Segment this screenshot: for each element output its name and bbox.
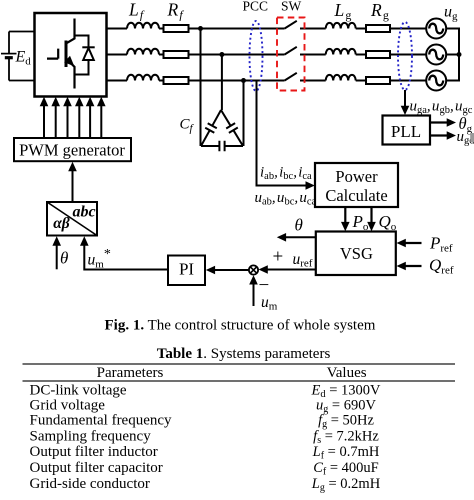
svg-text:Parameters: Parameters: [97, 365, 164, 381]
grid measuring ellipse: [398, 22, 412, 90]
inductor Lf phase-b: [127, 49, 159, 55]
capacitor Cf delta bottom side: [201, 145, 243, 147]
SW dashed box: [277, 18, 305, 91]
svg-text:Cf: Cf: [180, 117, 195, 135]
table rule under header: [23, 380, 456, 382]
wire abc to PWM: [72, 166, 74, 202]
resistor Rg phase-c: [366, 77, 390, 84]
svg-text:θ: θ: [295, 216, 303, 235]
source ug phase-a: [426, 19, 446, 39]
battery Ed plate long: [1, 53, 17, 55]
wire phase-b inverter to Lf: [107, 54, 127, 56]
wire phase-b Rg to source: [390, 54, 426, 56]
summer junction: [249, 265, 258, 274]
transistor IGBT body bar: [65, 41, 68, 68]
svg-text:PLL: PLL: [391, 122, 421, 141]
wire VSG out theta: [284, 236, 316, 238]
inductor Lg phase-a: [326, 23, 356, 29]
transistor IGBT emitter lead: [66, 59, 75, 89]
svg-text:uab, ubc, uca: uab, ubc, uca: [255, 190, 317, 208]
svg-text:Values: Values: [327, 365, 367, 381]
svg-text:Calculate: Calculate: [325, 186, 387, 205]
wire DC-link left upper: [8, 32, 10, 54]
inductor Lf phase-a: [127, 23, 159, 29]
wire theta into abc block: [56, 240, 58, 269]
svg-text:iab, ibc, ica: iab, ibc, ica: [260, 164, 312, 182]
svg-text:Fig. 1. The control structure: Fig. 1. The control structure of whole s…: [105, 318, 376, 334]
wire Po: [344, 207, 346, 228]
svg-text:PI: PI: [179, 260, 194, 279]
svg-text:Rf: Rf: [167, 0, 185, 22]
wire PCC tap to PLL: [404, 90, 406, 111]
artifact grey block: [470, 133, 474, 142]
wire um into summer: [253, 284, 255, 306]
inductor Lg phase-b: [326, 49, 356, 55]
capacitor Cf delta right side: [221, 110, 243, 146]
svg-text:ug: ug: [444, 4, 458, 23]
wire phase-b Lg to Rg: [356, 54, 366, 56]
inductor Lg phase-c: [326, 75, 356, 81]
PI box: [168, 256, 205, 286]
wire Qo: [370, 207, 372, 228]
diode triangle: [83, 48, 94, 60]
transistor IGBT gate: [47, 49, 58, 59]
svg-text:SW: SW: [281, 0, 302, 14]
diode cathode bar: [82, 46, 94, 48]
svg-text:Grid-side conductor: Grid-side conductor: [30, 476, 150, 492]
capacitor Cf delta left side: [201, 110, 221, 146]
resistor Rf phase-c: [164, 77, 189, 84]
Power Calculate box: [315, 163, 398, 207]
PWM generator box: [14, 138, 131, 161]
svg-text:Lg = 0.2mH: Lg = 0.2mH: [311, 476, 381, 494]
svg-text:um: um: [261, 294, 278, 313]
transform block abc/alphabeta: [47, 202, 97, 236]
resistor Rg phase-b: [366, 51, 390, 58]
svg-text:Power: Power: [335, 167, 378, 186]
transistor IGBT emitter arrowhead: [64, 56, 74, 66]
VSG box: [316, 232, 396, 276]
svg-text:Qo: Qo: [379, 212, 397, 233]
wire phase-a Lg to Rg: [356, 28, 366, 30]
wire phase-c Lf to Rf: [159, 80, 164, 82]
wire um* into abc block: [84, 240, 168, 270]
wire DC-link left lower: [8, 58, 10, 81]
wire phase-a Rf to switch: [189, 28, 285, 30]
svg-text:θ: θ: [60, 249, 68, 268]
wire PLL out ugd: [430, 134, 448, 136]
svg-text:Ed: Ed: [15, 49, 32, 68]
svg-text:um*: um*: [88, 247, 111, 271]
svg-text:Pref: Pref: [429, 234, 453, 255]
inductor Lf phase-c: [127, 75, 159, 81]
svg-text:Rg: Rg: [370, 0, 389, 22]
wire phase-a inverter to Lf: [107, 28, 127, 30]
svg-text:αβ: αβ: [53, 215, 70, 232]
battery Ed plate short: [5, 56, 13, 59]
svg-text:Table 1. Systems parameters: Table 1. Systems parameters: [157, 346, 331, 362]
PWM gate arrows x6: [44, 104, 101, 138]
table rule top: [23, 363, 456, 365]
wire drop phase-a to Cf: [200, 29, 202, 147]
resistor Rf phase-a: [164, 25, 189, 32]
node neutral junction: [457, 52, 462, 57]
wire phase-c Lg to Rg: [356, 80, 366, 82]
wire uref VSG to summer: [266, 269, 316, 271]
svg-text:Fundamental frequency: Fundamental frequency: [30, 413, 173, 429]
svg-text:Qref: Qref: [429, 256, 454, 277]
svg-text:+: +: [273, 247, 284, 268]
node phase-b junction: [219, 52, 224, 57]
wire PLL out theta-g: [430, 121, 448, 123]
wire phase-a Lf to Rf: [159, 28, 164, 30]
wire DC-link bottom: [9, 80, 35, 82]
resistor Rf phase-b: [164, 51, 189, 58]
source ug phase-c: [426, 71, 446, 91]
wire summer to PI: [213, 269, 249, 271]
inverter box: [35, 13, 107, 97]
wire phase-c Rf to switch: [189, 80, 285, 82]
PLL box: [383, 116, 431, 145]
svg-text:Output filter capacitor: Output filter capacitor: [30, 460, 163, 476]
node phase-c junction: [241, 78, 246, 83]
PCC measuring ellipse: [250, 21, 263, 91]
wire source neutral bus: [446, 29, 459, 81]
svg-text:uref: uref: [293, 251, 313, 270]
svg-text:Grid voltage: Grid voltage: [30, 397, 106, 413]
diode anti-parallel top branch: [75, 36, 89, 48]
svg-text:PCC: PCC: [243, 0, 269, 14]
wire phase-b Rf to switch: [189, 54, 285, 56]
node phase-a junction: [198, 26, 203, 31]
source ug phase-b: [426, 45, 446, 65]
wire phase-c inverter to Lf: [107, 80, 127, 82]
svg-text:Sampling frequency: Sampling frequency: [30, 428, 152, 444]
wire phase-a Rg to source: [390, 28, 426, 30]
wire drop phase-c to Cf: [243, 81, 245, 147]
wire Qref into VSG: [404, 265, 422, 267]
diode bottom branch: [75, 60, 89, 75]
svg-text:Lg: Lg: [334, 0, 352, 22]
switch SW phase-c: [285, 73, 326, 81]
svg-text:Output filter inductor: Output filter inductor: [30, 444, 158, 460]
svg-text:Po: Po: [352, 212, 369, 233]
svg-text:−: −: [259, 275, 270, 296]
wire PCC tap to Power Calculate: [257, 81, 308, 186]
wire phase-b Lf to Rf: [159, 54, 164, 56]
transistor IGBT collector lead: [67, 19, 75, 44]
switch SW phase-a: [285, 21, 326, 29]
switch SW phase-b: [285, 47, 326, 55]
wire drop phase-b to Cf apex: [221, 55, 223, 111]
svg-text:PWM generator: PWM generator: [19, 141, 125, 160]
resistor Rg phase-a: [366, 25, 390, 32]
svg-text:abc: abc: [72, 204, 95, 221]
svg-text:Lf: Lf: [128, 0, 145, 22]
svg-text:VSG: VSG: [340, 244, 373, 263]
svg-text:DC-link voltage: DC-link voltage: [30, 382, 127, 398]
wire Pref into VSG: [404, 242, 422, 244]
wire DC-link top: [9, 31, 35, 33]
wire phase-c Rg to source: [390, 80, 426, 82]
